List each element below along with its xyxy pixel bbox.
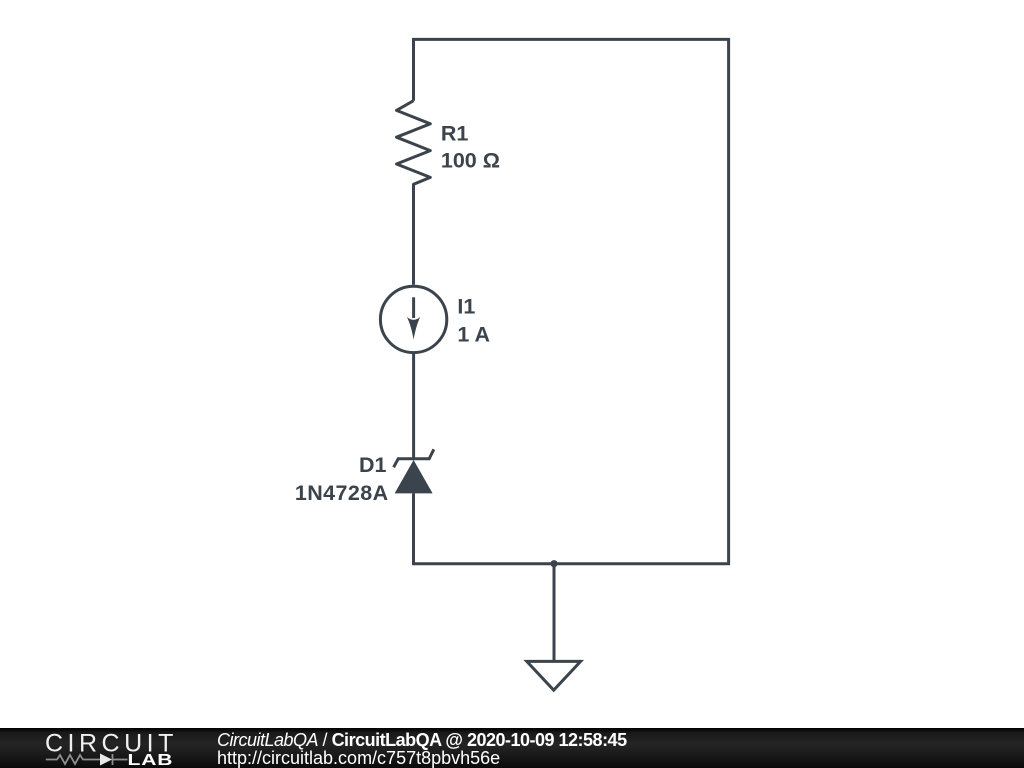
svg-text:1 A: 1 A <box>457 323 490 347</box>
svg-text:I1: I1 <box>457 295 475 319</box>
svg-text:D1: D1 <box>359 453 387 477</box>
svg-text:R1: R1 <box>441 121 469 145</box>
svg-text:100 Ω: 100 Ω <box>441 148 500 172</box>
svg-text:LAB: LAB <box>128 751 174 768</box>
svg-text:1N4728A: 1N4728A <box>295 481 389 505</box>
